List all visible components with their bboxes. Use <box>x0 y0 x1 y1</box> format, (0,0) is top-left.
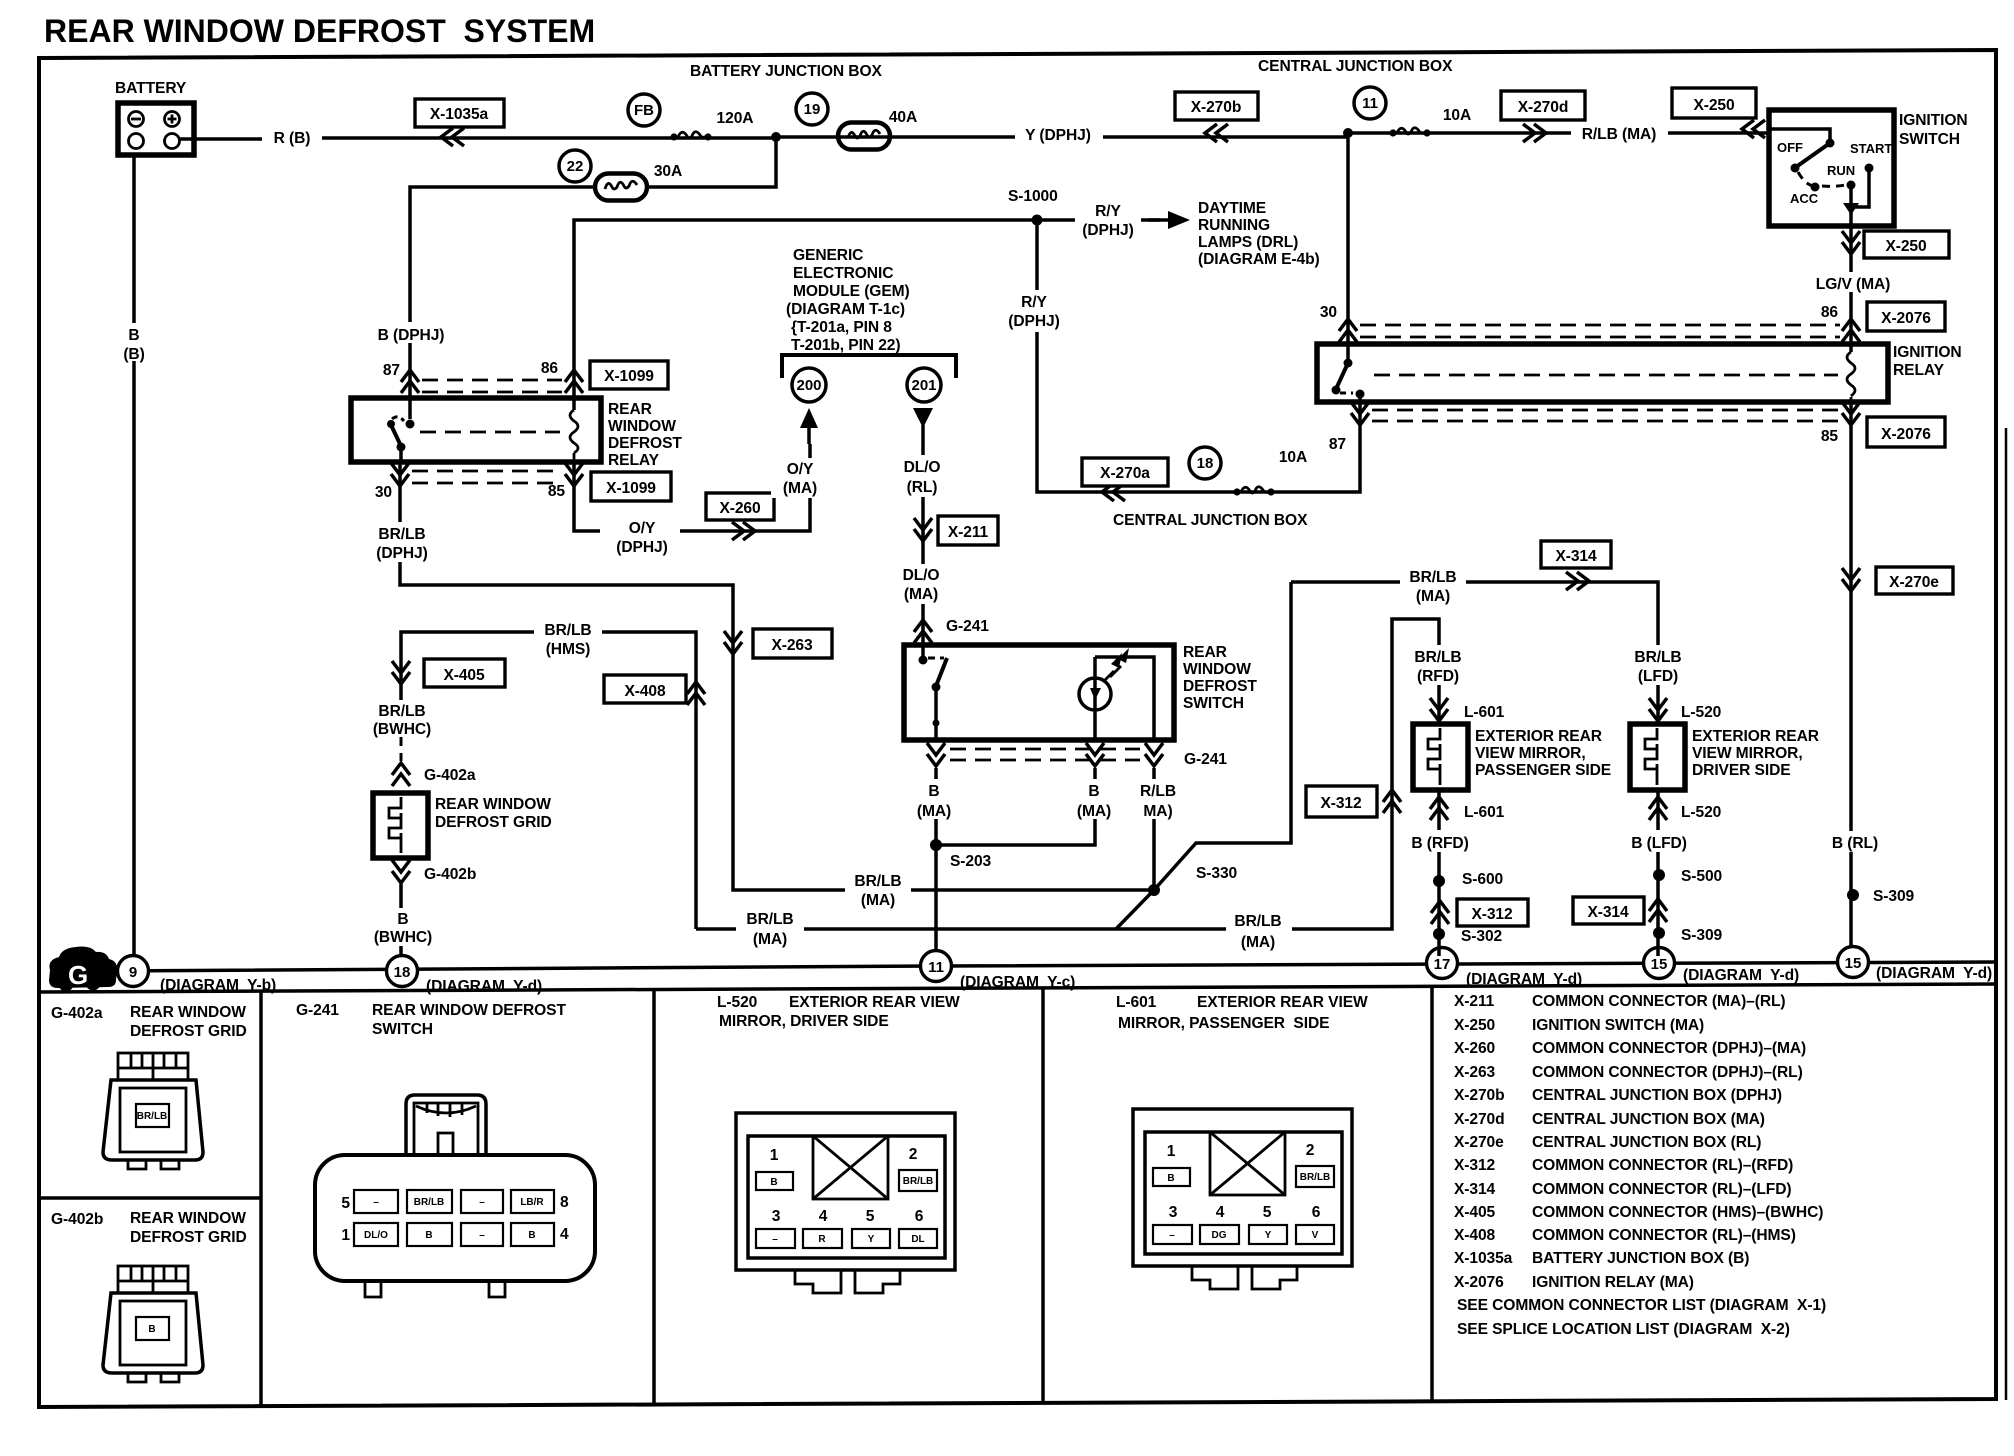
wire label Y (DPHJ) <box>1015 124 1103 144</box>
bottom section frame <box>39 984 1996 992</box>
svg-text:200: 200 <box>796 377 821 394</box>
svg-text:X-263: X-263 <box>1454 1064 1496 1081</box>
svg-text:G: G <box>68 960 88 990</box>
svg-text:SWITCH: SWITCH <box>1183 695 1244 712</box>
svg-text:(DIAGRAM Y-d): (DIAGRAM Y-d) <box>1876 965 1992 982</box>
connector list <box>1454 993 1826 1338</box>
svg-text:–: – <box>1169 1230 1175 1241</box>
svg-text:G-241: G-241 <box>946 618 989 635</box>
svg-text:ACC: ACC <box>1790 191 1819 206</box>
exterior rear view mirror driver side heater <box>1630 724 1685 790</box>
splice S-500 <box>1653 869 1665 881</box>
svg-text:COMMON CONNECTOR (DPHJ)–(MA): COMMON CONNECTOR (DPHJ)–(MA) <box>1532 1040 1806 1057</box>
svg-text:LAMPS (DRL): LAMPS (DRL) <box>1198 234 1298 251</box>
svg-text:B (DPHJ): B (DPHJ) <box>378 327 445 344</box>
svg-text:B: B <box>928 783 939 800</box>
svg-text:DL/O: DL/O <box>364 1230 388 1241</box>
svg-text:MA): MA) <box>1143 803 1172 820</box>
wire label B (MA) second <box>1065 779 1127 819</box>
wire label B (RL) <box>1822 831 1884 852</box>
connector G-241 arrow into switch <box>914 620 932 643</box>
connector X-2076 upper <box>1867 302 1945 331</box>
svg-text:COMMON CONNECTOR (RL)–(RFD): COMMON CONNECTOR (RL)–(RFD) <box>1532 1157 1793 1174</box>
svg-text:RELAY: RELAY <box>1893 362 1945 379</box>
svg-text:S-203: S-203 <box>950 853 992 870</box>
svg-text:RUN: RUN <box>1827 163 1855 178</box>
svg-text:LG/V (MA): LG/V (MA) <box>1816 276 1890 293</box>
svg-text:L-520: L-520 <box>1681 804 1722 821</box>
svg-text:BR/LB: BR/LB <box>903 1176 934 1187</box>
connector X-405 <box>424 659 505 687</box>
wire label BR/LB (HMS) <box>534 618 602 658</box>
wire BR/LB (MA) to driver mirror via X-314 <box>1291 582 1658 645</box>
svg-text:T-201b, PIN 22): T-201b, PIN 22) <box>791 337 900 354</box>
svg-text:VIEW MIRROR,: VIEW MIRROR, <box>1692 745 1803 762</box>
wire BR/LB (HMS) connecting X-405 and X-408 branches <box>401 632 696 929</box>
svg-text:5: 5 <box>866 1208 875 1225</box>
svg-text:X-408: X-408 <box>1454 1227 1496 1244</box>
svg-text:(MA): (MA) <box>861 892 895 909</box>
wire ignition switch output LG/V <box>1849 226 1853 352</box>
wire battery negative B (B) down to ground bus <box>132 155 136 956</box>
svg-text:X-312: X-312 <box>1454 1157 1496 1174</box>
svg-text:5: 5 <box>1263 1204 1272 1221</box>
svg-text:(RL): (RL) <box>907 479 938 496</box>
svg-text:6: 6 <box>1312 1204 1321 1221</box>
svg-text:(MA): (MA) <box>783 480 817 497</box>
svg-text:(DIAGRAM Y-d): (DIAGRAM Y-d) <box>426 978 542 995</box>
connector X-270d <box>1501 91 1585 120</box>
svg-text:X-263: X-263 <box>771 637 813 654</box>
svg-text:X-270d: X-270d <box>1454 1111 1505 1128</box>
ground bus line <box>104 962 1997 971</box>
connector arrow X-270d <box>1523 124 1546 142</box>
svg-text:(DIAGRAM E-4b): (DIAGRAM E-4b) <box>1198 251 1320 268</box>
svg-text:LB/R: LB/R <box>520 1197 544 1208</box>
svg-text:BR/LB: BR/LB <box>137 1111 168 1122</box>
svg-text:R/Y: R/Y <box>1021 294 1047 311</box>
svg-text:(MA): (MA) <box>917 803 951 820</box>
connector L-520 arrow out <box>1656 790 1660 956</box>
svg-text:(DIAGRAM T-1c): (DIAGRAM T-1c) <box>786 301 905 318</box>
svg-text:COMMON CONNECTOR (MA)–(RL): COMMON CONNECTOR (MA)–(RL) <box>1532 993 1786 1010</box>
connector G-241 dashed boundary <box>950 749 1140 760</box>
connector arrow X-405 <box>392 661 410 684</box>
svg-text:G-241: G-241 <box>296 1002 339 1019</box>
svg-text:(DPHJ): (DPHJ) <box>1082 222 1133 239</box>
connector X-2076 dashed boundary upper <box>1360 325 1840 337</box>
connector arrow X-270e <box>1842 568 1860 591</box>
connector X-270b <box>1175 92 1258 120</box>
svg-text:IGNITION RELAY (MA): IGNITION RELAY (MA) <box>1532 1274 1694 1291</box>
wire label B (DPHJ) <box>370 322 454 343</box>
wire defrost relay 85 to GEM pin 200 <box>574 444 810 531</box>
svg-text:B: B <box>128 327 139 344</box>
svg-text:GENERIC: GENERIC <box>793 247 863 264</box>
svg-text:X-270b: X-270b <box>1454 1087 1505 1104</box>
connector arrow X-1035a <box>441 128 464 146</box>
svg-text:BATTERY JUNCTION BOX (B): BATTERY JUNCTION BOX (B) <box>1532 1250 1749 1267</box>
svg-text:9: 9 <box>129 964 137 981</box>
connector L-601 arrow in <box>1430 698 1448 721</box>
connector G-402a arrow <box>392 763 410 786</box>
ground circle 18 <box>387 956 418 987</box>
ignition relay <box>1317 344 1888 402</box>
svg-text:B (RL): B (RL) <box>1832 835 1878 852</box>
wire ignition relay 85 to ground B (RL) <box>1849 402 1853 947</box>
svg-text:DEFROST GRID: DEFROST GRID <box>435 814 552 831</box>
rear window defrost relay <box>351 398 601 462</box>
connector arrow X-270a <box>1102 483 1125 501</box>
svg-text:BR/LB: BR/LB <box>378 526 425 543</box>
exterior rear view mirror passenger side heater <box>1413 724 1468 790</box>
wire label B (RFD) <box>1405 830 1473 852</box>
svg-text:S-302: S-302 <box>1461 928 1503 945</box>
svg-text:L-601: L-601 <box>1464 704 1505 721</box>
svg-text:30: 30 <box>375 484 393 501</box>
svg-text:L-520: L-520 <box>717 994 758 1011</box>
svg-text:15: 15 <box>1651 956 1668 973</box>
svg-text:S-330: S-330 <box>1196 865 1238 882</box>
connector arrow X-314 upper <box>1566 572 1589 590</box>
svg-text:X-405: X-405 <box>1454 1204 1496 1221</box>
svg-text:REAR WINDOW: REAR WINDOW <box>130 1210 246 1227</box>
connector G-241 pins out of switch <box>927 743 945 766</box>
connector L-520 arrow in <box>1649 698 1667 721</box>
L-520 connector drawing <box>736 1113 955 1293</box>
fuse circle 22 <box>559 150 591 182</box>
svg-text:VIEW MIRROR,: VIEW MIRROR, <box>1475 745 1586 762</box>
connector X-312 lower <box>1457 899 1528 926</box>
svg-text:B (LFD): B (LFD) <box>1631 835 1687 852</box>
svg-text:X-408: X-408 <box>624 683 666 700</box>
arrow from pin 201 <box>921 425 925 444</box>
svg-text:30A: 30A <box>654 163 682 180</box>
connector X-408 <box>604 675 686 703</box>
svg-text:G-402b: G-402b <box>51 1211 103 1228</box>
connector arrow X-314 lower <box>1649 899 1667 922</box>
wire defrost relay 30 to X-263 branch <box>400 462 1154 890</box>
L-601 connector drawing <box>1133 1109 1352 1289</box>
svg-text:B: B <box>528 1230 535 1241</box>
svg-text:15: 15 <box>1845 955 1862 972</box>
svg-text:4: 4 <box>819 1208 828 1225</box>
svg-text:4: 4 <box>1216 1204 1225 1221</box>
svg-text:10A: 10A <box>1279 449 1307 466</box>
svg-text:B: B <box>397 911 408 928</box>
svg-text:MIRROR, DRIVER SIDE: MIRROR, DRIVER SIDE <box>719 1013 889 1030</box>
wire S-330 lower branch BR/LB (MA) to mirrors <box>696 619 1439 929</box>
rear window defrost grid <box>373 793 428 858</box>
svg-text:–: – <box>479 1230 485 1241</box>
ground symbol G <box>49 947 117 992</box>
svg-text:–: – <box>373 1197 379 1208</box>
svg-text:EXTERIOR REAR: EXTERIOR REAR <box>1692 728 1819 745</box>
svg-text:X-250: X-250 <box>1885 238 1927 255</box>
connector X-250 below switch <box>1864 231 1949 258</box>
connector arrow X-263 <box>724 631 742 654</box>
svg-text:11: 11 <box>928 959 944 976</box>
svg-text:BR/LB: BR/LB <box>1234 913 1281 930</box>
connector X-314 lower <box>1573 897 1644 924</box>
svg-text:R/LB: R/LB <box>1140 783 1176 800</box>
svg-text:120A: 120A <box>717 110 754 127</box>
svg-text:EXTERIOR REAR VIEW: EXTERIOR REAR VIEW <box>1197 994 1368 1011</box>
wire label BR/LB (RFD) <box>1405 645 1471 685</box>
connector arrow X-408 <box>687 682 705 705</box>
svg-text:CENTRAL JUNCTION BOX: CENTRAL JUNCTION BOX <box>1258 58 1453 75</box>
connector X-211 <box>938 516 998 545</box>
svg-text:Y: Y <box>1265 1230 1272 1241</box>
svg-text:B: B <box>1088 783 1099 800</box>
connector arrow X-312 lower <box>1431 901 1449 924</box>
svg-text:REAR: REAR <box>608 401 652 418</box>
svg-text:S-309: S-309 <box>1681 927 1723 944</box>
svg-text:G-241: G-241 <box>1184 751 1227 768</box>
wire R (B) battery feed to battery junction box <box>179 133 1769 139</box>
svg-text:6: 6 <box>915 1208 924 1225</box>
connector X-1099 dashed boundary upper <box>422 380 562 392</box>
ground circle 17 <box>1427 948 1458 979</box>
wire ignition relay 87 to central junction box <box>1037 220 1360 492</box>
svg-text:S-600: S-600 <box>1462 871 1504 888</box>
GEM pin 201 <box>907 368 941 402</box>
connector X-1099 lower <box>591 472 671 501</box>
svg-text:X-312: X-312 <box>1471 906 1513 923</box>
svg-text:REAR: REAR <box>1183 644 1227 661</box>
ground circle 15 right <box>1838 947 1869 978</box>
connector arrow X-250 <box>1742 120 1765 138</box>
svg-text:BR/LB: BR/LB <box>378 703 425 720</box>
connector arrow X-211 <box>914 518 932 541</box>
svg-text:REAR WINDOW DEFROST SYSTEM: REAR WINDOW DEFROST SYSTEM <box>44 13 595 49</box>
GEM bracket <box>782 355 956 378</box>
wire switch R/LB to splice S-330 <box>1152 768 1156 890</box>
splice S-309 right <box>1847 889 1859 901</box>
fuse 30A <box>595 174 647 201</box>
fuse FB circle <box>628 94 660 126</box>
svg-text:X-312: X-312 <box>1320 795 1362 812</box>
svg-text:BR/LB: BR/LB <box>1414 649 1461 666</box>
svg-text:2: 2 <box>909 1146 918 1163</box>
wire S-330 upper branch to X-314 line <box>1154 582 1291 890</box>
svg-text:S-500: S-500 <box>1681 868 1723 885</box>
svg-text:CENTRAL JUNCTION BOX (RL): CENTRAL JUNCTION BOX (RL) <box>1532 1134 1761 1151</box>
svg-text:X-314: X-314 <box>1587 904 1629 921</box>
wire dashed BWHC to grid <box>400 737 403 761</box>
svg-text:COMMON CONNECTOR (RL)–(HMS): COMMON CONNECTOR (RL)–(HMS) <box>1532 1227 1796 1244</box>
svg-text:X-314: X-314 <box>1454 1181 1496 1198</box>
svg-text:REAR WINDOW DEFROST: REAR WINDOW DEFROST <box>372 1002 566 1019</box>
wire label B (BWHC) <box>363 908 443 946</box>
svg-text:19: 19 <box>804 101 821 118</box>
svg-text:10A: 10A <box>1443 107 1471 124</box>
ground circle 15 left <box>1644 948 1675 979</box>
G-402b connector drawing <box>103 1266 203 1382</box>
svg-text:X-1035a: X-1035a <box>1454 1250 1513 1267</box>
ignition switch <box>1769 110 1894 226</box>
wire label DL/O (MA) <box>892 564 952 604</box>
connector X-1099 dashed boundary lower <box>412 471 562 483</box>
svg-text:BR/LB: BR/LB <box>854 873 901 890</box>
GEM pin 200 <box>792 368 826 402</box>
ground circle 11 <box>921 951 952 982</box>
fuse 120A <box>670 132 711 141</box>
svg-text:40A: 40A <box>889 109 917 126</box>
connector X-270a <box>1082 458 1168 486</box>
svg-text:X-2076: X-2076 <box>1881 310 1931 327</box>
svg-text:(DPHJ): (DPHJ) <box>376 545 427 562</box>
svg-text:(MA): (MA) <box>1241 934 1275 951</box>
svg-text:DAYTIME: DAYTIME <box>1198 200 1266 217</box>
svg-text:8: 8 <box>560 1194 569 1211</box>
svg-text:DG: DG <box>1212 1230 1227 1241</box>
svg-text:BR/LB: BR/LB <box>1300 1172 1331 1183</box>
svg-text:BR/LB: BR/LB <box>1409 569 1456 586</box>
wire label BR/LB (BWHC) <box>363 700 441 738</box>
svg-text:START: START <box>1850 141 1892 156</box>
svg-text:S-309: S-309 <box>1873 888 1915 905</box>
svg-text:R/LB (MA): R/LB (MA) <box>1582 126 1656 143</box>
right inner border line <box>2005 428 2008 1400</box>
svg-text:3: 3 <box>772 1208 781 1225</box>
svg-text:X-1035a: X-1035a <box>430 106 489 123</box>
connector X-314 upper <box>1541 541 1611 568</box>
node label B (B) <box>118 323 151 361</box>
svg-text:RELAY: RELAY <box>608 452 660 469</box>
wire label B (MA) first <box>905 779 967 819</box>
wire R/Y (DPHJ) from 30A fuse to DRL and relay <box>574 220 1160 410</box>
svg-text:COMMON CONNECTOR (HMS)–(BWHC): COMMON CONNECTOR (HMS)–(BWHC) <box>1532 1204 1823 1221</box>
wire label BR/LB (LFD) <box>1625 645 1691 685</box>
wire down to 30A fuse branch <box>648 137 776 187</box>
svg-text:X-211: X-211 <box>948 524 989 541</box>
fuse circle 11 <box>1354 87 1386 119</box>
connector X-2076 lower <box>1867 417 1945 447</box>
svg-text:X-405: X-405 <box>443 667 485 684</box>
wire label O/Y (MA) <box>771 458 829 498</box>
svg-text:DEFROST GRID: DEFROST GRID <box>130 1023 247 1040</box>
svg-text:MODULE (GEM): MODULE (GEM) <box>793 283 910 300</box>
connector X-260 <box>706 493 774 520</box>
svg-text:O/Y: O/Y <box>629 520 656 537</box>
svg-text:3: 3 <box>1169 1204 1178 1221</box>
connector X-263 <box>753 629 832 658</box>
svg-text:85: 85 <box>548 483 566 500</box>
svg-text:(RFD): (RFD) <box>1417 668 1459 685</box>
svg-text:PASSENGER SIDE: PASSENGER SIDE <box>1475 762 1611 779</box>
fuse 40A <box>838 123 890 150</box>
svg-text:SEE SPLICE LOCATION LIST (DIAG: SEE SPLICE LOCATION LIST (DIAGRAM X-2) <box>1457 1321 1790 1338</box>
svg-text:G-402b: G-402b <box>424 866 476 883</box>
connector X-1099 upper <box>590 361 668 389</box>
svg-text:Y (DPHJ): Y (DPHJ) <box>1025 127 1091 144</box>
svg-text:X-270a: X-270a <box>1100 465 1150 482</box>
fuse 10A central <box>1233 487 1274 496</box>
svg-text:1: 1 <box>770 1147 779 1164</box>
svg-text:X-250: X-250 <box>1693 97 1735 114</box>
splice S-302 <box>1433 928 1445 940</box>
svg-text:X-260: X-260 <box>1454 1040 1496 1057</box>
svg-text:22: 22 <box>567 158 584 175</box>
svg-text:COMMON CONNECTOR (DPHJ)–(RL): COMMON CONNECTOR (DPHJ)–(RL) <box>1532 1064 1803 1081</box>
svg-text:SEE COMMON CONNECTOR LIST (DIA: SEE COMMON CONNECTOR LIST (DIAGRAM X-1) <box>1457 1297 1826 1314</box>
svg-text:30: 30 <box>1320 304 1338 321</box>
svg-text:DEFROST: DEFROST <box>1183 678 1257 695</box>
svg-text:X-250: X-250 <box>1454 1017 1496 1034</box>
wire label BR/LB (MA) lower right <box>1226 908 1292 952</box>
svg-text:87: 87 <box>1329 436 1346 453</box>
svg-text:X-1099: X-1099 <box>606 480 656 497</box>
connector G-402b arrow <box>392 860 410 883</box>
svg-text:R: R <box>818 1234 826 1245</box>
svg-text:(DIAGRAM Y-d): (DIAGRAM Y-d) <box>1683 967 1799 984</box>
splice S-203 <box>930 839 942 851</box>
svg-text:DL/O: DL/O <box>903 567 940 584</box>
svg-text:G-402a: G-402a <box>424 767 476 784</box>
svg-text:5: 5 <box>341 1195 350 1212</box>
svg-text:SWITCH: SWITCH <box>372 1021 433 1038</box>
svg-text:X-314: X-314 <box>1555 548 1597 565</box>
wire to driver mirror <box>1656 685 1660 724</box>
svg-text:(MA): (MA) <box>1077 803 1111 820</box>
svg-text:DEFROST: DEFROST <box>608 435 682 452</box>
wire label BR/LB (MA) left <box>845 869 911 909</box>
svg-text:B: B <box>148 1324 155 1335</box>
svg-text:BR/LB: BR/LB <box>544 622 591 639</box>
G-241 connector drawing <box>315 1095 595 1297</box>
svg-text:(DPHJ): (DPHJ) <box>1008 313 1059 330</box>
svg-text:X-211: X-211 <box>1454 993 1495 1010</box>
svg-text:(BWHC): (BWHC) <box>374 929 432 946</box>
svg-text:(LFD): (LFD) <box>1638 668 1678 685</box>
svg-text:B: B <box>1167 1173 1174 1184</box>
svg-text:V: V <box>1312 1230 1319 1241</box>
node junction central junction box <box>1343 128 1353 138</box>
splice S-309 driver <box>1653 927 1665 939</box>
connector arrow X-250 below switch <box>1842 231 1860 254</box>
svg-text:11: 11 <box>1362 95 1378 112</box>
svg-text:REAR WINDOW: REAR WINDOW <box>130 1004 246 1021</box>
svg-text:201: 201 <box>911 377 936 394</box>
svg-text:MIRROR, PASSENGER SIDE: MIRROR, PASSENGER SIDE <box>1118 1015 1329 1032</box>
svg-text:X-1099: X-1099 <box>604 368 654 385</box>
svg-text:WINDOW: WINDOW <box>1183 661 1251 678</box>
svg-text:REAR WINDOW: REAR WINDOW <box>435 796 551 813</box>
svg-text:L-520: L-520 <box>1681 704 1722 721</box>
svg-text:BR/LB: BR/LB <box>1634 649 1681 666</box>
ground circle 9 <box>118 956 149 987</box>
svg-text:L-601: L-601 <box>1464 804 1505 821</box>
svg-text:(BWHC): (BWHC) <box>373 721 431 738</box>
connector arrow X-270b <box>1205 124 1228 142</box>
svg-text:2: 2 <box>1306 1142 1315 1159</box>
svg-text:ELECTRONIC: ELECTRONIC <box>793 265 893 282</box>
connector L-601 arrow out <box>1437 790 1441 956</box>
svg-text:X-270b: X-270b <box>1191 99 1242 116</box>
svg-text:DRIVER SIDE: DRIVER SIDE <box>1692 762 1791 779</box>
svg-text:S-1000: S-1000 <box>1008 188 1058 205</box>
svg-text:86: 86 <box>1821 304 1839 321</box>
svg-text:18: 18 <box>1197 455 1214 472</box>
splice S-600 <box>1433 875 1445 887</box>
svg-text:X-270e: X-270e <box>1454 1134 1504 1151</box>
wire label R/LB MA) <box>1128 779 1190 819</box>
svg-text:1: 1 <box>341 1227 350 1244</box>
svg-text:1: 1 <box>1167 1143 1176 1160</box>
svg-text:(MA): (MA) <box>1416 588 1450 605</box>
svg-text:R/Y: R/Y <box>1095 203 1121 220</box>
